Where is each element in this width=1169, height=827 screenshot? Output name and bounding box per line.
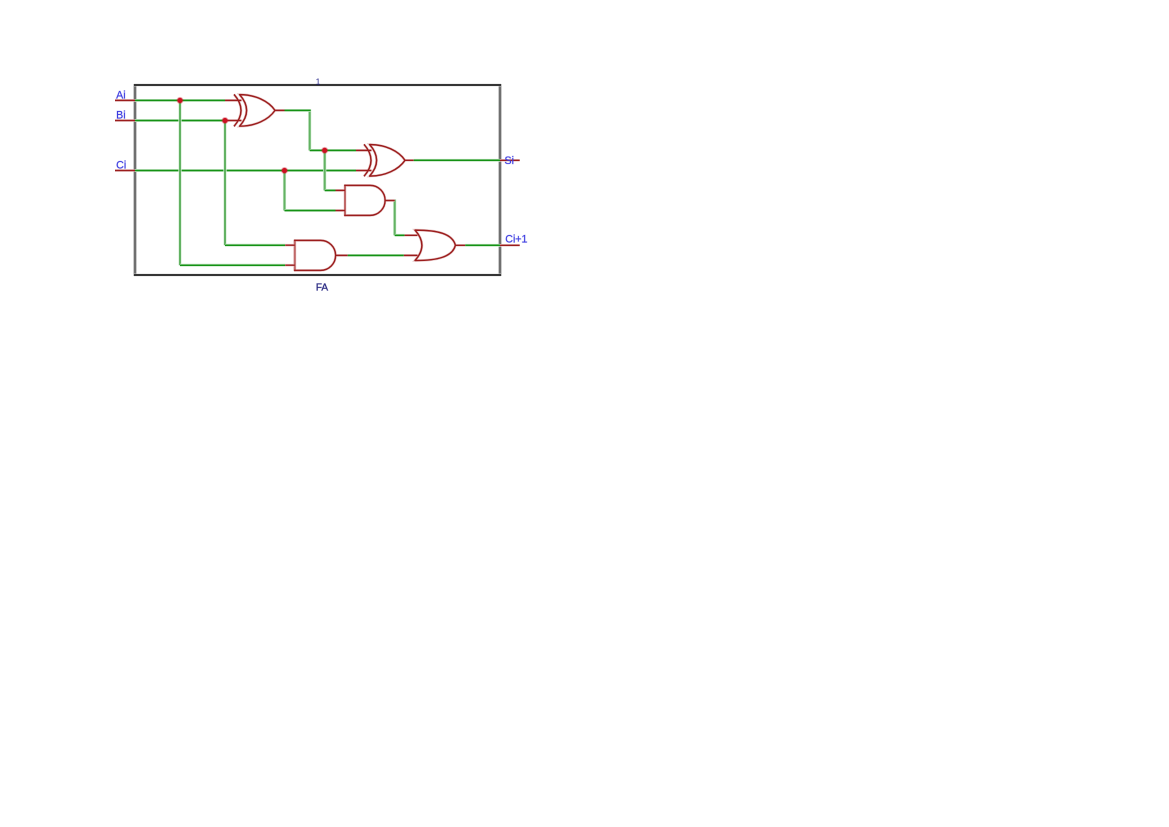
wire Ai horizontal — [135, 99, 225, 102]
wire OR output to Ci+1 port — [465, 244, 500, 247]
output port Ci+1 (pin stub) — [500, 244, 520, 247]
junction dot on XOR1 output net — [321, 147, 328, 154]
AND gate 1 ((Ai xor Bi) and Ci) — [336, 185, 395, 216]
wire Bi horizontal — [135, 119, 225, 122]
OR gate (carry Ci+1) — [404, 230, 465, 260]
AND gate 2 (Ai and Bi) — [285, 240, 347, 271]
XOR gate 1 (Ai xor Bi) — [225, 94, 285, 126]
FA block boundary — [134, 84, 501, 276]
input port Ai (pin stub) — [115, 99, 135, 102]
svg-text:Ai: Ai — [116, 90, 125, 102]
wire AND2 output to OR lower input — [348, 254, 404, 257]
junction dot on Bi line — [222, 117, 229, 124]
svg-text:Si: Si — [505, 155, 514, 167]
XOR gate 2 (sum Si) — [356, 144, 414, 176]
wire Ci branch down to AND1 lower input — [285, 170, 336, 211]
svg-text:FA: FA — [316, 283, 329, 294]
output port Si (pin stub) — [500, 159, 520, 162]
svg-text:Ci: Ci — [116, 160, 126, 172]
wire AND1 output to OR upper input — [395, 200, 405, 236]
input port Ci (pin stub) — [115, 169, 135, 172]
svg-text:Ci+1: Ci+1 — [505, 234, 527, 246]
wire XOR1 output to XOR2 upper input — [285, 109, 357, 150]
wire Ai branch down to AND2 lower input — [180, 99, 285, 265]
junction dot on Ci line — [281, 167, 288, 174]
input port Bi (pin stub) — [115, 119, 135, 122]
wire XOR1-out branch down to AND1 upper input — [325, 149, 336, 190]
wire Ci horizontal — [135, 169, 356, 172]
wire Bi branch down to AND2 upper input — [225, 120, 285, 246]
svg-text:1: 1 — [316, 77, 321, 87]
wire XOR2 output to Si port — [414, 159, 500, 162]
junction dot on Ai line — [177, 97, 184, 104]
svg-text:Bi: Bi — [116, 110, 125, 122]
